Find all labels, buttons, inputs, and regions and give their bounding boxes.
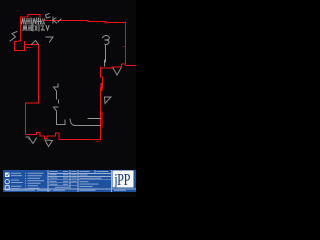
- cert icon 2 text lines: [11, 179, 19, 182]
- bottom contact line: [5, 189, 35, 192]
- annotation gray seven mark: [46, 37, 53, 42]
- annotation gray flag glyph upper: [54, 84, 59, 99]
- lamp symbol stem: [105, 45, 106, 67]
- plan background: [0, 0, 136, 197]
- annotation gray hook right of text: [46, 14, 51, 19]
- annotation gray triangle below bottom line right: [45, 140, 53, 147]
- annotation gray step tick at SW corner: [26, 137, 29, 139]
- wire red site boundary: top-left block outline: [21, 15, 41, 42]
- wire red small stub below top line: [41, 21, 43, 24]
- wire red small stub east of U: [27, 47, 30, 49]
- jpp logo box: [113, 171, 134, 188]
- cert icon 1 text lines: [11, 172, 21, 175]
- annotation gray pennant below bottom line left: [29, 138, 37, 144]
- jpp logo text: [113, 171, 130, 190]
- services bullet list: [25, 173, 44, 189]
- wire red U-shaped building footprint: [15, 41, 25, 51]
- annotation gray wall line into boundary: [88, 118, 100, 120]
- title block background: [3, 170, 136, 192]
- cert icon 3: [5, 186, 9, 190]
- annotation text scribbles row 1: [22, 18, 45, 24]
- annotation gray triangle flag near right vertical: [105, 97, 112, 104]
- cert icon 1: [5, 173, 10, 178]
- svg-text:jPP: jPP: [113, 171, 130, 190]
- annotation gray triangle above U link line: [32, 41, 39, 45]
- table grid lines: [3, 170, 136, 192]
- annotation gray zigzag arrow left of boundary: [10, 32, 17, 42]
- wire maroon notch on top line: [104, 22, 108, 24]
- annotation gray u-curve kerb line: [70, 119, 100, 126]
- wire red thick jog detail: [101, 84, 103, 90]
- wire red bottom boundary with bumps: [25, 45, 101, 140]
- wire maroon notch on bottom line: [96, 141, 100, 143]
- cert icon 3 text lines: [11, 185, 22, 188]
- lamp symbol epsilon head: [103, 36, 110, 45]
- cert icon 2: [5, 179, 9, 183]
- wire red right lobe west side vertical with jogs: [101, 67, 103, 140]
- wire maroon tick on NE vertical: [123, 46, 125, 48]
- wire red top boundary long line stepping to NE corner: [40, 21, 126, 23]
- annotation text scribbles dark accents: [24, 19, 43, 31]
- cert icon 1 check: [6, 173, 9, 175]
- wire red horizontal to right image edge: [126, 65, 137, 67]
- annotation text scribbles row 2: [23, 25, 49, 31]
- annotation gray pennant under NE line: [113, 68, 121, 75]
- wire red NE corner vertical down right edge: [101, 22, 126, 68]
- wire red tick on west vertical: [100, 112, 102, 127]
- annotation gray flag glyph lower with foot: [54, 100, 66, 125]
- project info text: [80, 170, 90, 173]
- annotation gray marks k and arrow: [53, 17, 62, 23]
- table cell text marks: [5, 171, 126, 191]
